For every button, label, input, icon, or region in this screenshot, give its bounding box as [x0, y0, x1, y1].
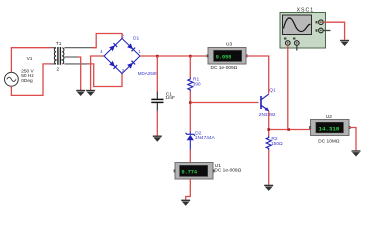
wire U3 right to Q1 collector: [246, 56, 269, 94]
ground (center tap): [76, 90, 85, 96]
wire bridge right node / DC+ rail to U3: [140, 55, 208, 57]
wire scope ground stub: [323, 30, 330, 32]
svg-text:14.318: 14.318: [319, 125, 340, 132]
svg-text:U3: U3: [226, 42, 232, 48]
node junction at C1: [156, 55, 159, 58]
diode bottom-right: [127, 61, 135, 69]
svg-text:XSC1: XSC1: [297, 8, 314, 14]
wire C1 to ground: [156, 111, 158, 136]
svg-text:0.055: 0.055: [216, 55, 232, 61]
svg-text:T1: T1: [56, 41, 62, 47]
wire secondary top to bridge top node: [92, 34, 122, 48]
ground (U1): [181, 200, 190, 206]
wire V1 top to transformer primary top: [11, 48, 51, 73]
ground (C1): [153, 136, 162, 142]
capacitor C1: [151, 92, 163, 111]
wire output node to U2: [269, 129, 311, 131]
svg-text:U2: U2: [326, 114, 332, 120]
svg-text:0.774: 0.774: [182, 170, 198, 176]
transformer secondary leads (gray): [64, 47, 92, 49]
wire scope channel A to output node: [287, 45, 290, 128]
svg-text:0Deg: 0Deg: [21, 78, 33, 84]
ground (bridge left node): [86, 90, 95, 96]
ground (R2): [264, 185, 273, 191]
node junction scope tap: [287, 128, 290, 131]
svg-text:390: 390: [193, 82, 201, 88]
svg-text:1mF: 1mF: [165, 95, 175, 101]
svg-text:MDA2500: MDA2500: [138, 71, 159, 76]
V1 labels: [21, 56, 34, 84]
wire R1 to D2 / base node: [189, 92, 191, 132]
svg-text:150Ω: 150Ω: [271, 141, 283, 147]
terminal A: [286, 41, 291, 46]
wire Q1 emitter to output node: [268, 111, 270, 136]
ground (U2): [352, 150, 361, 156]
ground (scope trigger): [340, 40, 349, 46]
oscilloscope XSC1: [280, 13, 326, 49]
svg-text:DC 1e-009Ω: DC 1e-009Ω: [214, 168, 241, 174]
svg-text:Q1: Q1: [269, 88, 276, 94]
wire U2 right to ground: [349, 128, 356, 151]
wire rail to C1: [156, 56, 158, 92]
wire scope channel B stub: [296, 45, 298, 50]
svg-text:2: 2: [57, 67, 60, 73]
zener diode D2: [186, 132, 195, 150]
wire R2 to ground: [268, 150, 270, 185]
AC source V1: [4, 70, 18, 89]
wire secondary center tap to ground: [78, 57, 81, 90]
svg-text:2N3392: 2N3392: [259, 112, 276, 118]
svg-text:DC 10MΩ: DC 10MΩ: [318, 139, 340, 145]
wire V1 bottom to transformer primary bottom: [11, 64, 51, 96]
svg-text:DC 1e-009Ω: DC 1e-009Ω: [211, 65, 238, 71]
node junction at R1: [189, 55, 192, 58]
terminal T: [319, 20, 324, 25]
resistor R2: [266, 136, 271, 150]
wire scope trigger to ground: [323, 22, 344, 40]
diode left-top: [109, 43, 117, 51]
wire rail to R1: [189, 56, 191, 78]
transformer T1: [51, 47, 64, 65]
multimeter U1: [174, 163, 215, 180]
svg-text:V1: V1: [27, 56, 33, 62]
node junction emitter/R2: [267, 128, 270, 131]
diode left-bottom: [109, 61, 117, 69]
bridge rectifier D1: [104, 39, 140, 74]
svg-text:1N4744A: 1N4744A: [195, 135, 216, 141]
wire secondary bottom to bridge bottom node: [87, 64, 122, 87]
multimeter U3: [207, 48, 248, 65]
svg-text:D1: D1: [133, 36, 139, 42]
diode top-right: [127, 43, 135, 51]
node junction at Q1 base tee: [189, 101, 192, 104]
wire U1 to ground: [186, 179, 191, 200]
terminal B: [295, 41, 300, 46]
terminal G: [319, 28, 324, 33]
multimeter U2: [309, 120, 351, 136]
wire bridge left node to ground: [91, 56, 104, 90]
wire D2 to U1: [189, 150, 191, 163]
transistor Q1: [261, 94, 269, 111]
wire base node to Q1 base: [190, 102, 258, 104]
resistor R1: [188, 78, 193, 92]
